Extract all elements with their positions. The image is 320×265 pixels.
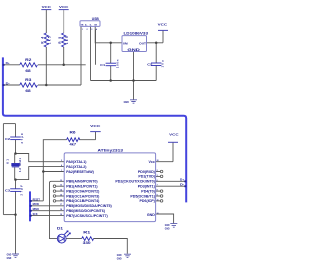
svg-text:13: 13 (60, 185, 62, 187)
svg-text:MOSI: MOSI (33, 202, 40, 206)
svg-text:3: 3 (91, 29, 92, 31)
svg-text:PD1(TXD): PD1(TXD) (138, 175, 155, 179)
svg-text:C3: C3 (5, 189, 11, 193)
svg-text:68: 68 (25, 89, 31, 93)
svg-text:VCC: VCC (59, 5, 69, 9)
svg-text:R2: R2 (25, 58, 32, 62)
svg-text:C5: C5 (147, 63, 153, 67)
svg-text:PB1(AIN1/PCINT1): PB1(AIN1/PCINT1) (66, 185, 98, 189)
svg-text:16: 16 (60, 199, 62, 201)
svg-text:PA2(RESET/dW): PA2(RESET/dW) (66, 170, 94, 174)
svg-text:D-: D- (6, 81, 10, 85)
svg-text:USB: USB (92, 17, 100, 21)
svg-text:GND: GND (124, 101, 129, 104)
svg-text:OUT: OUT (139, 41, 146, 45)
svg-text:PA1(XTAL2): PA1(XTAL2) (66, 165, 87, 169)
svg-text:R3: R3 (25, 78, 32, 82)
svg-text:PA0(XTAL1): PA0(XTAL1) (66, 160, 87, 164)
svg-text:7: 7 (157, 185, 158, 187)
svg-text:SCK: SCK (33, 212, 38, 216)
svg-text:R1: R1 (83, 231, 90, 235)
svg-text:GND: GND (127, 48, 141, 52)
svg-text:100n: 100n (116, 59, 120, 68)
svg-text:1k5: 1k5 (47, 36, 51, 44)
svg-text:GND: GND (117, 258, 122, 260)
svg-text:PD6(ICP): PD6(ICP) (140, 199, 156, 203)
svg-text:9: 9 (157, 195, 158, 197)
svg-text:C1: C1 (100, 63, 106, 67)
svg-text:D+: D+ (180, 178, 185, 182)
svg-text:8: 8 (157, 190, 158, 192)
svg-text:GND: GND (7, 255, 12, 257)
svg-text:3: 3 (157, 175, 158, 177)
svg-text:68: 68 (25, 69, 31, 73)
svg-text:11: 11 (157, 199, 159, 201)
svg-text:330: 330 (83, 241, 91, 245)
svg-text:PD4(T0): PD4(T0) (141, 189, 155, 193)
svg-text:15: 15 (60, 195, 62, 197)
svg-text:5: 5 (61, 160, 62, 162)
svg-text:ATtiny2313: ATtiny2313 (98, 148, 124, 152)
svg-text:PB4(OC1B/PCINT4): PB4(OC1B/PCINT4) (66, 199, 100, 203)
svg-text:PB6(MISO/DO/PCINT6): PB6(MISO/DO/PCINT6) (66, 209, 106, 213)
svg-text:MISO: MISO (33, 207, 39, 211)
svg-text:D+: D+ (6, 61, 11, 65)
svg-text:20: 20 (157, 160, 159, 162)
svg-text:10u: 10u (160, 60, 164, 67)
svg-text:PB5(MOSI/DI/SDA/PCINT5): PB5(MOSI/DI/SDA/PCINT5) (66, 204, 112, 208)
svg-text:2: 2 (87, 29, 88, 31)
svg-text:12 MHz: 12 MHz (18, 157, 22, 172)
svg-text:PB2(OC0A/PCINT2): PB2(OC0A/PCINT2) (66, 189, 100, 193)
svg-text:VCC: VCC (90, 124, 101, 128)
svg-text:PD0(RXD): PD0(RXD) (138, 170, 156, 174)
svg-text:12: 12 (60, 180, 62, 182)
svg-text:R6: R6 (70, 131, 76, 135)
svg-text:4k7: 4k7 (70, 142, 77, 146)
svg-text:1k5: 1k5 (65, 36, 69, 44)
svg-text:GND: GND (117, 255, 122, 257)
svg-text:14: 14 (60, 189, 62, 192)
svg-text:VCC: VCC (158, 23, 168, 27)
svg-text:GND: GND (147, 213, 155, 217)
svg-text:C2: C2 (5, 137, 11, 141)
svg-text:GND: GND (165, 225, 170, 227)
svg-text:PB0(AIN0/PCINT0): PB0(AIN0/PCINT0) (66, 180, 98, 184)
svg-text:D1: D1 (57, 227, 63, 231)
svg-text:GND: GND (7, 258, 12, 260)
svg-text:PD3(INT1): PD3(INT1) (138, 185, 156, 189)
svg-text:4: 4 (61, 164, 62, 167)
svg-text:1: 1 (61, 170, 62, 172)
svg-text:GND: GND (165, 228, 170, 230)
svg-text:RESET: RESET (33, 197, 41, 201)
svg-text:1: 1 (82, 29, 83, 31)
svg-text:10: 10 (157, 213, 159, 215)
svg-text:PB3(OC1A/PCINT3): PB3(OC1A/PCINT3) (66, 194, 100, 198)
svg-text:X1: X1 (5, 159, 9, 164)
svg-text:D-: D- (180, 183, 184, 187)
svg-text:PD5(OC0B/T1): PD5(OC0B/T1) (130, 194, 155, 198)
svg-text:LD1086V33: LD1086V33 (124, 32, 149, 36)
svg-text:2: 2 (157, 170, 158, 172)
svg-text:VCC: VCC (169, 133, 179, 137)
svg-text:PD2(CKOUT/XCK/INT0): PD2(CKOUT/XCK/INT0) (115, 180, 155, 184)
svg-text:19: 19 (60, 214, 62, 216)
svg-text:17: 17 (60, 204, 62, 206)
svg-text:Vcc: Vcc (148, 160, 154, 164)
svg-text:18: 18 (60, 209, 62, 211)
svg-text:6: 6 (157, 180, 158, 182)
svg-text:VCC: VCC (42, 5, 52, 9)
svg-text:PB7(UCSK/SCL/PCINT7): PB7(UCSK/SCL/PCINT7) (66, 214, 108, 218)
